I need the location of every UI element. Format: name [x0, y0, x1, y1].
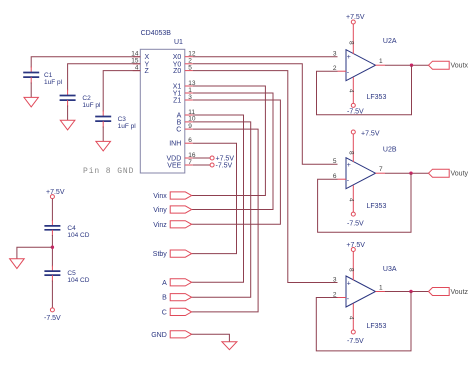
svg-text:7: 7 [379, 166, 383, 173]
svg-text:1: 1 [188, 87, 192, 94]
svg-text:+7.5V: +7.5V [46, 189, 65, 196]
U1 pin 10 (B) stub and number [185, 116, 196, 123]
wire net B: U1 pin 10 to port B [192, 122, 251, 297]
svg-text:C1: C1 [44, 72, 53, 79]
wire net X0: U1 pin 12 to U2A pin 3 [193, 56, 338, 58]
ground below C1 [24, 97, 38, 107]
power +7.5V at U2A [346, 14, 365, 24]
svg-text:Vinx: Vinx [153, 193, 167, 200]
wire net X: U1 pin 14 to C1 [31, 57, 140, 68]
svg-text:Pin 8 GND: Pin 8 GND [83, 167, 134, 176]
svg-text:Y1: Y1 [173, 91, 182, 98]
ground at GND port [222, 342, 237, 350]
svg-text:9: 9 [188, 123, 192, 130]
port Vinz [153, 221, 191, 229]
wire U2B output to port Vouty [385, 172, 429, 174]
svg-text:104 CD: 104 CD [67, 232, 89, 239]
port Viny [153, 206, 191, 214]
svg-text:+: + [347, 54, 351, 61]
U2A pin 8 power lead [348, 24, 355, 54]
power -7.5V at U3A [347, 330, 364, 345]
U3A pin 4 power lead [348, 304, 355, 331]
port A [162, 279, 191, 287]
svg-text:+7.5V: +7.5V [346, 242, 365, 249]
svg-text:U2B: U2B [383, 147, 397, 154]
svg-text:5: 5 [333, 158, 337, 165]
op-amp U2A [333, 38, 397, 101]
U1 pin 7 (VEE) stub and number [185, 159, 193, 166]
U1 pin 15 (Y) stub and number [131, 58, 140, 65]
port Vouty [429, 169, 469, 178]
port Voutz [429, 288, 469, 297]
junction U2B output [409, 172, 412, 175]
wire net X1: U1 pin 13 to port Vinx [192, 86, 266, 196]
power -7.5V at U2A [347, 103, 364, 115]
wire net Z1: U1 pin 3 to port Vinz [192, 100, 281, 224]
port GND [151, 331, 191, 339]
wire net Z: U1 pin 4 to C3 [103, 71, 140, 112]
wire C3 to ground [102, 127, 104, 142]
wire net Y0: U1 pin 2 to U2B pin 5 [193, 64, 338, 164]
svg-text:U1: U1 [174, 39, 183, 46]
svg-text:1: 1 [379, 284, 383, 291]
svg-text:Stby: Stby [153, 251, 168, 258]
svg-text:-7.5V: -7.5V [347, 221, 364, 228]
svg-text:Viny: Viny [153, 207, 167, 214]
wire net Y1: U1 pin 1 to port Viny [192, 93, 273, 210]
wire C4 to C5 [51, 235, 53, 267]
svg-text:U3A: U3A [383, 266, 397, 273]
U2A pin 4 power lead [348, 77, 355, 103]
svg-text:Voutz: Voutz [451, 289, 469, 296]
U1 pin 4 (Z) stub and number [133, 64, 141, 71]
svg-text:X: X [145, 54, 150, 61]
port Vinx [153, 192, 191, 200]
svg-text:LF353: LF353 [367, 323, 387, 330]
svg-text:1uF pl: 1uF pl [44, 79, 63, 86]
svg-text:X0: X0 [173, 54, 182, 61]
wire U2B feedback loop [318, 173, 411, 232]
svg-text:C5: C5 [67, 270, 76, 277]
junction U2A output [410, 63, 413, 66]
capacitor C2 [60, 90, 101, 110]
U1 pin 13 (X1) stub and number [185, 80, 196, 87]
op-amp U2B [333, 147, 397, 211]
svg-text:VDD: VDD [167, 156, 182, 163]
svg-text:+: + [347, 281, 351, 288]
power +7.5V at U1 VDD [193, 156, 235, 163]
svg-text:-7.5V: -7.5V [347, 338, 364, 345]
junction C4/C5/ground [51, 246, 54, 249]
U1 pin 2 (Y0) stub and number [185, 58, 193, 65]
U1 pin 6 (INH) stub and number [185, 137, 193, 144]
port B [162, 294, 191, 302]
svg-text:5: 5 [188, 64, 192, 71]
svg-text:-7.5V: -7.5V [216, 163, 233, 170]
svg-text:4: 4 [348, 316, 355, 320]
wire U2A feedback loop [317, 65, 412, 115]
wire port GND to ground [192, 334, 230, 341]
ground below C2 [60, 120, 75, 130]
svg-text:3: 3 [333, 276, 337, 283]
svg-text:104 CD: 104 CD [67, 277, 89, 284]
svg-text:6: 6 [188, 137, 192, 144]
svg-text:B: B [177, 119, 182, 126]
wire net INH: U1 pin 6 to port Stby [192, 143, 237, 253]
U2B pin 8 power lead [348, 134, 355, 162]
capacitor C3 [95, 111, 136, 131]
U1 pin 12 (X0) stub and number [185, 51, 196, 58]
svg-text:Z: Z [145, 68, 150, 75]
U1 pin 3 (Z1) stub and number [185, 94, 193, 101]
U1 pin 9 (C) stub and number [185, 123, 193, 130]
wire U3A output to port Voutz [385, 291, 429, 293]
op-amp U3A [333, 266, 397, 330]
svg-text:Vouty: Vouty [451, 171, 469, 178]
svg-text:1uF pl: 1uF pl [82, 102, 101, 109]
svg-text:+7.5V: +7.5V [346, 14, 365, 21]
port Voutx [429, 61, 469, 69]
svg-text:Voutx: Voutx [451, 63, 469, 70]
svg-text:C4: C4 [67, 225, 76, 232]
power -7.5V at U1 VEE [193, 163, 233, 170]
capacitor C5 [44, 266, 89, 285]
port Stby [153, 250, 192, 258]
wire C2 to ground [67, 106, 69, 121]
U1 pin 14 (X) stub and number [131, 51, 140, 58]
power +7.5V at U2B [351, 130, 380, 138]
U3A pin 8 power lead [348, 252, 355, 281]
wire C1 to ground [30, 83, 32, 98]
U1 pin 5 (Z0) stub and number [185, 64, 193, 71]
svg-text:1uF pl: 1uF pl [118, 123, 137, 130]
svg-text:C2: C2 [82, 95, 91, 102]
svg-text:3: 3 [188, 94, 192, 101]
wire U3A feedback loop [316, 292, 411, 351]
svg-text:8: 8 [348, 268, 355, 272]
svg-text:+7.5V: +7.5V [216, 156, 235, 163]
junction U3A output [409, 290, 412, 293]
wire net C: U1 pin 9 to port C [192, 129, 259, 312]
svg-text:8: 8 [348, 41, 355, 45]
U1 pin 11 (A) stub and number [185, 109, 196, 116]
capacitor C1 [23, 67, 62, 87]
svg-text:X1: X1 [173, 84, 182, 91]
svg-text:3: 3 [333, 51, 337, 58]
power -7.5V symbol left column [44, 308, 61, 322]
svg-text:B: B [162, 295, 167, 302]
svg-text:-7.5V: -7.5V [44, 315, 61, 322]
svg-text:+: + [347, 162, 351, 169]
svg-text:CD4053B: CD4053B [141, 30, 172, 37]
wire U2A output to port Voutx [385, 64, 429, 66]
ground at C4/C5 junction [10, 259, 25, 269]
wire net Y: U1 pin 15 to C2 [68, 64, 141, 91]
capacitor C4 [44, 220, 89, 239]
power +7.5V at U3A [346, 242, 365, 252]
svg-text:Z0: Z0 [173, 68, 181, 75]
svg-text:C: C [176, 127, 181, 134]
power +7.5V symbol left column [46, 189, 65, 199]
U1 pin 1 (Y1) stub and number [185, 87, 193, 94]
U2B pin 4 power lead [348, 185, 355, 212]
svg-text:8: 8 [348, 151, 355, 155]
svg-text:LF353: LF353 [367, 203, 387, 210]
svg-text:VEE: VEE [167, 163, 181, 170]
wire junction to ground [17, 247, 53, 259]
svg-text:Z1: Z1 [173, 98, 181, 105]
svg-text:C3: C3 [118, 116, 127, 123]
svg-text:+7.5V: +7.5V [361, 131, 380, 138]
svg-text:LF353: LF353 [367, 94, 387, 101]
IC U1 CD4053B body [140, 30, 185, 173]
wire C5 to -7.5V [51, 281, 53, 308]
svg-text:1: 1 [379, 58, 383, 65]
wire +7.5V to C4 [51, 199, 53, 221]
wire net Z0: U1 pin 5 to U3A pin 3 [193, 71, 338, 283]
ground below C3 [96, 141, 111, 151]
svg-text:GND: GND [151, 332, 167, 339]
svg-text:INH: INH [169, 141, 181, 148]
svg-text:A: A [162, 280, 167, 287]
svg-text:Vinz: Vinz [153, 222, 167, 229]
svg-text:7: 7 [188, 159, 192, 166]
svg-text:4: 4 [348, 198, 355, 202]
svg-text:C: C [162, 309, 167, 316]
port C [162, 308, 192, 316]
svg-text:4: 4 [348, 89, 355, 93]
U1 pin 16 (VDD) stub and number [185, 152, 196, 159]
svg-text:U2A: U2A [383, 38, 397, 45]
wire net A: U1 pin 11 to port A [192, 115, 244, 282]
power -7.5V at U2B [347, 212, 364, 227]
